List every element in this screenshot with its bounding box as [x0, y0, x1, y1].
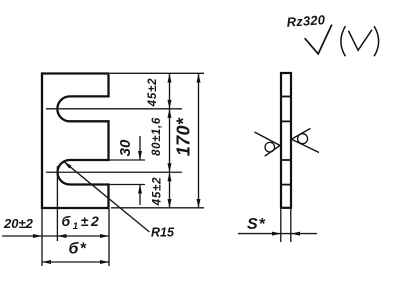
svg-text:S*: S* — [247, 216, 266, 233]
extension line top edge — [110, 72, 204, 74]
strip division 4 — [281, 184, 291, 186]
R15 leader arrow — [64, 161, 72, 168]
30 arrow down — [138, 151, 142, 160]
svg-text:20±2: 20±2 — [3, 216, 34, 231]
extension slot end down — [56, 166, 58, 241]
arrow 45bot down — [168, 199, 172, 208]
5* dimension line — [238, 233, 317, 235]
arrow b* right — [100, 260, 109, 264]
centerline bottom slot — [46, 171, 182, 173]
arrow 20 right — [33, 234, 42, 238]
30 arrow stem top — [139, 136, 141, 160]
arrow 80 down — [168, 163, 172, 172]
strip extension left — [280, 209, 282, 242]
bottom dimension line b* — [42, 261, 109, 263]
arrow b* left — [42, 260, 51, 264]
5* arrow left-pointing — [291, 232, 300, 236]
arrow 45top up — [168, 74, 172, 83]
centerline top slot — [46, 108, 182, 110]
extension line bottom edge — [111, 207, 204, 209]
svg-text:R15: R15 — [151, 226, 175, 240]
extension 30 bottom — [110, 184, 146, 186]
roughness check mark — [305, 25, 332, 54]
strip division 2 — [281, 120, 291, 122]
arrow b1 left — [57, 234, 66, 238]
svg-text:Rz320: Rz320 — [286, 12, 326, 30]
arrow 45bot up — [168, 172, 172, 181]
strip extension right — [290, 209, 292, 242]
svg-text:45±2: 45±2 — [147, 78, 159, 108]
arrow 80 up — [168, 109, 172, 118]
arrow 170 up — [197, 74, 201, 83]
left surface symbol circle — [265, 142, 275, 152]
30 arrow up — [138, 185, 142, 194]
arrow 45top down — [168, 100, 172, 109]
5* arrow right-pointing — [272, 232, 281, 236]
dimension line 170 — [198, 74, 200, 209]
strip division 1 — [281, 96, 291, 98]
close paren — [374, 26, 379, 56]
arrow 170 down — [197, 199, 201, 208]
svg-text:б*: б* — [69, 241, 88, 258]
bottom dimension line 20/b1 — [2, 235, 109, 237]
left surface symbol legs — [255, 132, 281, 156]
strip division 3 — [281, 159, 291, 161]
inner check mark — [348, 30, 372, 51]
plate outline (main view) — [42, 74, 109, 209]
30 arrow stem bottom — [139, 185, 141, 206]
arrow b1 right — [100, 234, 109, 238]
side view strip — [281, 73, 291, 208]
open paren — [341, 26, 346, 56]
extension left edge down — [41, 209, 43, 266]
svg-text:б1±2: б1±2 — [62, 213, 102, 232]
extension 30 top — [110, 159, 146, 161]
extension right face down — [108, 209, 110, 266]
right surface symbol circle — [298, 134, 308, 144]
svg-text:170*: 170* — [174, 117, 194, 156]
svg-text:45±2: 45±2 — [152, 177, 164, 207]
svg-text:30: 30 — [117, 139, 134, 156]
svg-text:80±1,6: 80±1,6 — [151, 117, 163, 156]
R15 leader — [64, 161, 150, 232]
right surface symbol legs — [292, 128, 320, 152]
dimension line 45/80/45 — [169, 74, 171, 209]
